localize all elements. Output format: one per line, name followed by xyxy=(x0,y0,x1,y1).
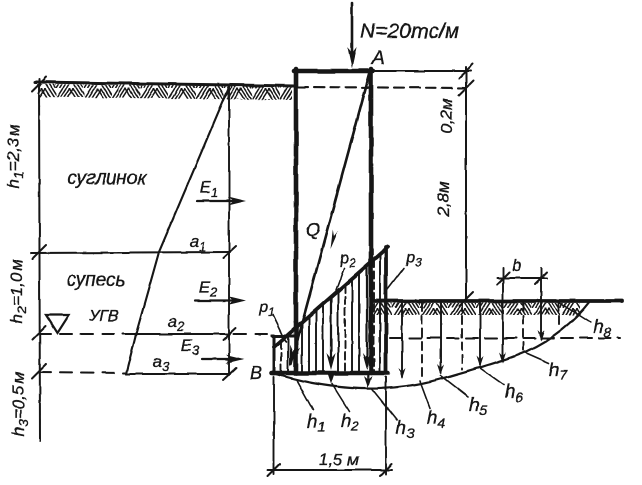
svg-text:h5: h5 xyxy=(469,395,488,418)
1,5м dimension extension right xyxy=(385,377,387,474)
pressure axis vertical line xyxy=(228,86,230,375)
tick at layer boundary xyxy=(32,245,46,259)
base pressure sloped top line xyxy=(274,247,388,347)
b extension line right xyxy=(540,268,542,339)
b dimension line xyxy=(497,277,547,279)
tick at 0,2 level xyxy=(459,81,473,95)
svg-text:h3: h3 xyxy=(396,418,415,441)
axis tick at a3 xyxy=(223,368,236,380)
right soil hatch xyxy=(374,303,580,315)
1,5м tick right xyxy=(380,464,392,476)
arrow E3 xyxy=(202,358,231,360)
wall left edge xyxy=(294,69,299,373)
svg-text:h2: h2 xyxy=(341,411,360,434)
water table triangle symbol xyxy=(46,315,69,333)
svg-text:E3: E3 xyxy=(181,336,200,358)
leader h1 xyxy=(297,381,313,410)
wall right edge xyxy=(369,69,374,373)
svg-text:E2: E2 xyxy=(199,278,218,300)
svg-text:a3: a3 xyxy=(153,352,170,374)
influence verticals right side xyxy=(402,303,559,380)
svg-text:h8: h8 xyxy=(593,317,612,340)
svg-text:A: A xyxy=(371,48,385,69)
svg-text:h1: h1 xyxy=(307,412,325,435)
active pressure boundary polyline xyxy=(126,87,229,374)
leader P2 xyxy=(336,268,344,290)
wall top edge xyxy=(294,69,373,74)
svg-text:B: B xyxy=(250,363,262,383)
leader h7 xyxy=(524,352,549,363)
svg-text:p3: p3 xyxy=(405,249,422,269)
svg-text:h3=0,5м: h3=0,5м xyxy=(9,372,31,436)
arrow E2 xyxy=(195,300,233,302)
leader h8 xyxy=(557,301,590,322)
svg-text:2,8м: 2,8м xyxy=(434,181,453,218)
1,5м tick left xyxy=(268,464,280,476)
leader P1 xyxy=(273,315,286,342)
svg-text:p1: p1 xyxy=(258,299,275,319)
1,5м dimension line xyxy=(268,469,392,471)
base level dashed line left xyxy=(39,372,126,373)
leader h4 xyxy=(420,381,430,408)
svg-text:h6: h6 xyxy=(505,382,524,405)
right ground surface line xyxy=(371,299,622,303)
svg-text:h7: h7 xyxy=(549,360,569,383)
svg-text:0,2м: 0,2м xyxy=(437,98,456,134)
left soil hatch xyxy=(40,84,292,100)
left dimension line xyxy=(39,79,40,441)
b tick right xyxy=(535,272,547,284)
svg-text:h1=2,3м: h1=2,3м xyxy=(4,124,26,188)
svg-text:УГВ: УГВ xyxy=(88,308,119,325)
svg-text:a2: a2 xyxy=(168,312,185,334)
axis tick at a1 xyxy=(223,246,236,258)
left ground surface line xyxy=(35,82,295,86)
1,5м dimension extension left xyxy=(273,377,275,474)
pressure arrow p3 region xyxy=(366,266,368,358)
thin extension from wall top to right dim line xyxy=(373,70,471,72)
right dimension line xyxy=(465,67,467,300)
tick at water table xyxy=(32,326,46,340)
force N arrow xyxy=(351,3,354,52)
base level solid line a3 xyxy=(126,373,230,375)
b tick left xyxy=(497,272,509,284)
water table dashed line left xyxy=(39,333,128,335)
svg-text:h4: h4 xyxy=(427,408,446,431)
leader h6 xyxy=(480,368,504,385)
axis tick at a2 xyxy=(223,328,236,340)
tick at base level xyxy=(32,364,46,378)
settlement curve xyxy=(276,301,590,389)
base pressure right edge xyxy=(384,247,388,373)
svg-text:b: b xyxy=(512,256,521,275)
footing left edge xyxy=(273,336,276,374)
leader h2 xyxy=(332,384,349,411)
layer boundary line a1 level xyxy=(31,252,230,253)
pressure hatch verticals xyxy=(281,255,380,371)
leader h3 xyxy=(372,389,397,420)
leader P3 xyxy=(384,268,404,294)
b extension line left xyxy=(502,268,504,361)
svg-text:N=20mс/м: N=20mс/м xyxy=(360,20,459,43)
svg-text:E1: E1 xyxy=(200,178,219,200)
water table solid line a2 xyxy=(128,333,230,335)
dashed line at 0,2м level xyxy=(298,87,466,88)
Q mid arrowhead xyxy=(331,230,339,249)
small arrowheads on curve xyxy=(327,330,545,388)
svg-text:p2: p2 xyxy=(339,250,356,270)
tick at ground xyxy=(32,77,46,91)
tick at ground level right xyxy=(459,292,473,306)
svg-text:h2=1,0м: h2=1,0м xyxy=(7,259,29,323)
force Q line from A to B xyxy=(291,72,370,364)
svg-text:супесь: супесь xyxy=(66,270,125,291)
water table dashes right of axis xyxy=(234,333,272,335)
svg-text:суглинок: суглинок xyxy=(67,168,147,189)
leader h5 xyxy=(441,376,468,397)
pressure arrow p2 region xyxy=(330,297,332,358)
svg-text:a1: a1 xyxy=(190,232,207,254)
arrow E1 xyxy=(197,200,233,202)
tick at wall top xyxy=(459,64,473,78)
svg-text:Q: Q xyxy=(306,220,320,240)
Q big arrowhead at B xyxy=(290,345,301,367)
right water table dashed line xyxy=(390,337,620,339)
footing left step top xyxy=(272,335,297,338)
footing bottom heavy line xyxy=(272,371,388,376)
svg-text:1,5 м: 1,5 м xyxy=(319,450,359,469)
